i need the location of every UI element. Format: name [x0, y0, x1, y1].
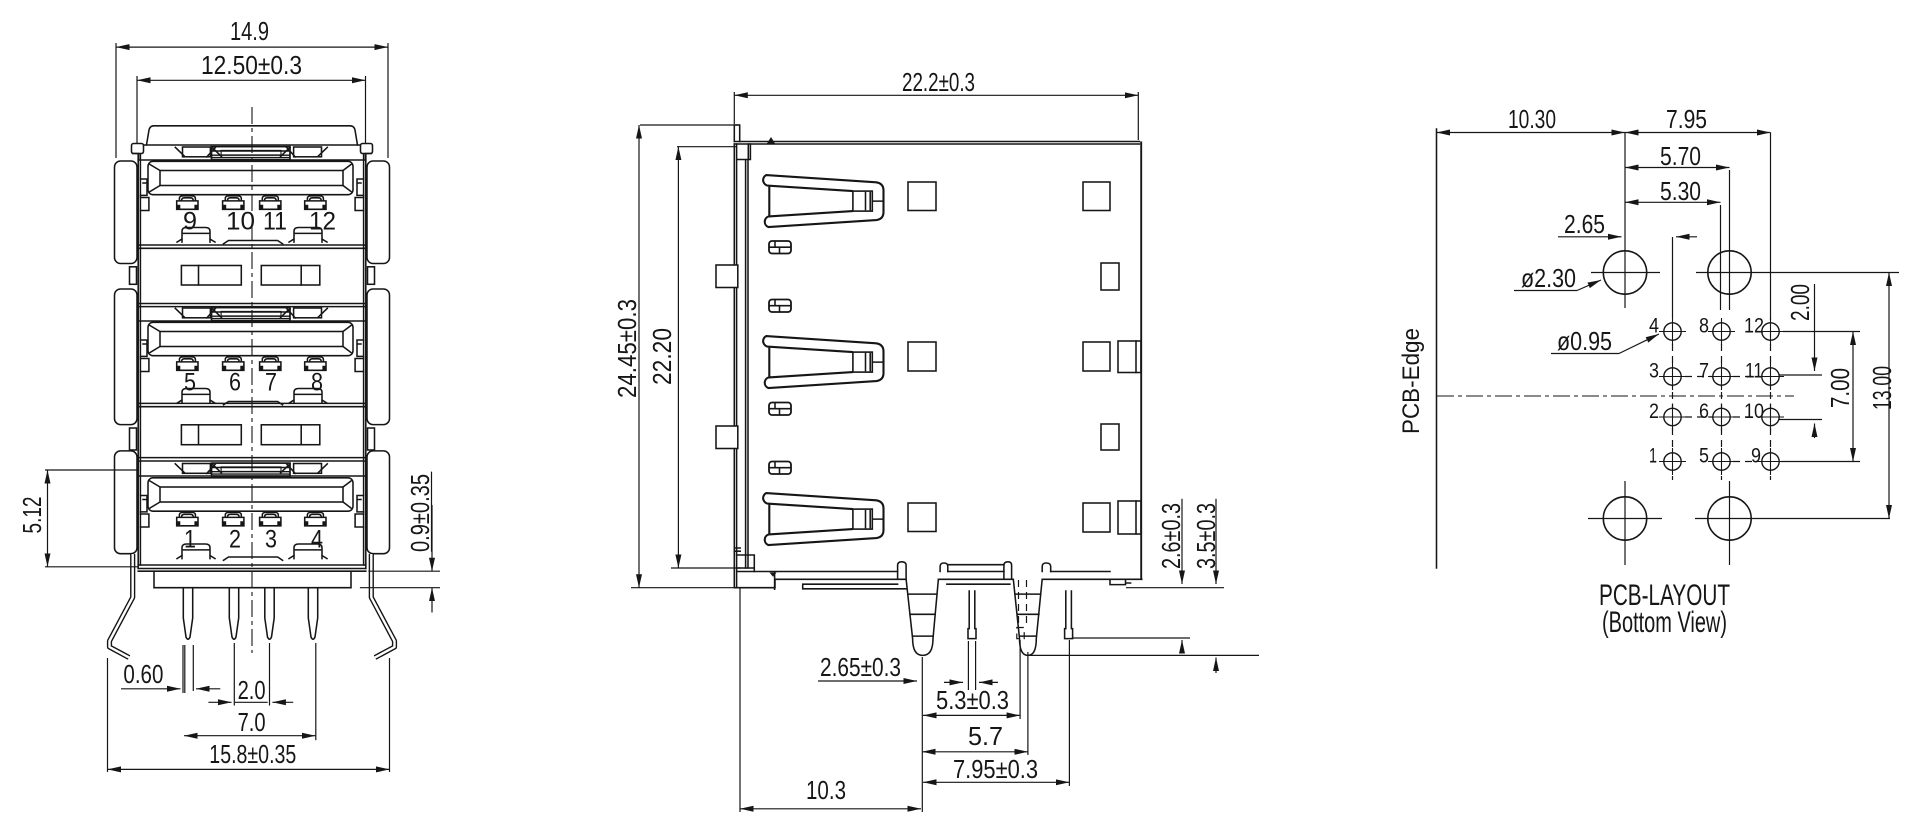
left mounting leg	[110, 554, 133, 658]
thin pin middle	[968, 590, 976, 638]
shell window right top	[1083, 182, 1110, 211]
mount hole top A	[1603, 251, 1646, 294]
svg-text:22.2±0.3: 22.2±0.3	[902, 67, 975, 97]
svg-text:10.3: 10.3	[806, 775, 846, 805]
port C assembly	[140, 463, 363, 560]
shell window right middle	[1083, 342, 1110, 371]
svg-text:2.0: 2.0	[238, 675, 266, 705]
svg-text:8: 8	[1699, 315, 1709, 338]
contact 4	[305, 196, 326, 209]
right wing lower	[367, 451, 390, 554]
svg-text:5.3±0.3: 5.3±0.3	[936, 685, 1009, 715]
pin hole 1	[1659, 448, 1686, 475]
PCB-VIEW	[1398, 104, 1899, 639]
right bottom feet	[1110, 579, 1131, 584]
shell window mid bottom	[908, 503, 936, 532]
side spring tab left a	[140, 179, 147, 195]
svg-text:12: 12	[309, 208, 336, 236]
svg-text:7.95±0.3: 7.95±0.3	[953, 754, 1038, 784]
pin carrier strip	[738, 565, 1110, 590]
svg-text:11: 11	[1745, 360, 1763, 383]
right extension lines	[1029, 588, 1259, 656]
pin column 2 axis	[1720, 205, 1722, 310]
svg-text:9: 9	[183, 208, 197, 236]
svg-text:0.9±0.35: 0.9±0.35	[405, 474, 435, 552]
svg-text:7.00: 7.00	[1825, 368, 1855, 408]
latch spring 2	[763, 336, 883, 388]
pin hole 9	[1757, 448, 1784, 475]
side spring tab right a	[357, 179, 364, 195]
svg-text:ø0.95: ø0.95	[1557, 326, 1612, 356]
mount hole bottom B	[1708, 497, 1751, 540]
svg-text:11: 11	[263, 208, 287, 236]
thin pin right	[1065, 590, 1073, 638]
svg-text:15.8±0.35: 15.8±0.35	[209, 739, 296, 769]
contact 2	[223, 196, 244, 209]
svg-text:10.30: 10.30	[1508, 104, 1556, 134]
wall tab 4	[769, 462, 791, 475]
port B assembly	[140, 308, 363, 405]
svg-text:1: 1	[184, 526, 196, 554]
pin A extension	[921, 657, 923, 812]
top cover	[734, 142, 1139, 145]
svg-text:4: 4	[311, 526, 323, 554]
side spring tab right b	[355, 198, 364, 211]
pin hole 10	[1757, 404, 1784, 431]
right ear tab	[361, 144, 373, 154]
top plastic cap	[147, 126, 358, 145]
svg-text:5: 5	[1699, 445, 1709, 468]
svg-text:24.45±0.3: 24.45±0.3	[612, 299, 642, 398]
strip bump 2	[940, 563, 948, 572]
svg-text:9: 9	[1751, 445, 1761, 468]
strip datum notch	[770, 573, 777, 577]
back edge slot middle	[1118, 341, 1141, 373]
svg-text:2: 2	[1649, 400, 1659, 423]
thin pin width arrows	[944, 681, 963, 683]
pin B hidden lines	[1019, 580, 1027, 626]
shell horizontal section lines	[138, 145, 366, 569]
svg-text:6: 6	[1699, 400, 1709, 423]
svg-text:22.20: 22.20	[647, 328, 677, 385]
wall tab 2	[769, 300, 791, 313]
pin hole 2	[1659, 404, 1686, 431]
back small slot upper	[1101, 263, 1119, 290]
centre bump	[224, 241, 283, 244]
row 1-5-9 dash	[1733, 461, 1757, 463]
centre seam bar	[212, 147, 291, 160]
pcb lock tab upper	[716, 265, 738, 288]
strip bump 3	[1004, 562, 1012, 579]
connector centreline	[1437, 395, 1794, 397]
centerline front view	[251, 107, 253, 653]
svg-text:14.9: 14.9	[230, 16, 269, 46]
front wall bottom notch	[734, 548, 754, 572]
mount hole top B	[1708, 251, 1751, 294]
pin column 1 axis	[1672, 237, 1674, 318]
solder pin 2 front	[229, 589, 238, 640]
tongue bevel lines	[150, 165, 351, 192]
right back wall	[1140, 142, 1142, 580]
back small slot lower	[1101, 424, 1119, 450]
svg-text:5.12: 5.12	[17, 497, 47, 534]
top crimp tabs	[183, 147, 211, 157]
pin column 3 axis	[1770, 133, 1772, 321]
shell outer right wall	[364, 145, 366, 569]
svg-text:10: 10	[1744, 400, 1764, 423]
row 3-7-11 dashes	[1685, 376, 1757, 378]
solder pin 3 front	[265, 589, 274, 640]
latch spring 1	[763, 175, 883, 227]
back edge slot bottom	[1118, 501, 1141, 534]
cover left tab	[734, 125, 739, 142]
svg-text:3: 3	[1649, 360, 1659, 383]
svg-text:7.0: 7.0	[238, 707, 266, 737]
solder pin B side	[1013, 579, 1042, 655]
left wing middle	[115, 289, 138, 425]
pcb lock tab lower	[716, 426, 738, 449]
cover datum mark	[767, 137, 775, 144]
pin hole 7	[1708, 363, 1735, 390]
PCB edge line	[1436, 129, 1438, 568]
tongue inner	[160, 171, 343, 186]
mount hole bottom A	[1603, 497, 1646, 540]
shell window right bottom	[1083, 503, 1110, 532]
svg-text:2: 2	[229, 526, 241, 554]
side spring tab left b	[140, 198, 149, 211]
svg-text:3: 3	[265, 526, 277, 554]
svg-text:10: 10	[226, 208, 255, 236]
shell window mid middle	[908, 342, 936, 371]
vent section 1 rectangles	[181, 266, 241, 286]
contact 1	[177, 196, 198, 209]
left ear tab	[132, 144, 144, 154]
pin hole 11	[1757, 363, 1784, 390]
left wing upper	[115, 161, 138, 264]
port A assembly	[140, 147, 363, 244]
strip bump 1	[898, 562, 907, 579]
latch bump right	[289, 228, 327, 243]
body bottom edge	[735, 579, 1142, 587]
right wing connector pieces	[368, 267, 375, 285]
vent section 2 rectangles	[181, 425, 241, 445]
pin hole 8	[1708, 318, 1735, 345]
svg-text:5: 5	[184, 369, 196, 397]
svg-text:(Bottom View): (Bottom View)	[1602, 606, 1727, 639]
svg-text:1: 1	[1649, 445, 1657, 468]
svg-text:2.00: 2.00	[1785, 284, 1815, 321]
svg-text:13.00: 13.00	[1867, 366, 1897, 410]
solder pin A side	[906, 579, 938, 655]
latch spring 3	[763, 493, 883, 545]
contact 3	[260, 196, 281, 209]
svg-text:5.7: 5.7	[968, 721, 1003, 751]
SIDE-VIEW	[612, 67, 1259, 812]
bottom flange	[138, 571, 366, 588]
left wing lower	[115, 451, 138, 554]
FRONT-VIEW	[17, 16, 440, 772]
svg-text:7: 7	[265, 369, 277, 397]
right mounting leg	[371, 554, 394, 658]
left front wall	[734, 144, 750, 588]
pin hole 12	[1757, 318, 1784, 345]
svg-text:PCB-Edge: PCB-Edge	[1398, 328, 1425, 434]
pin hole 6	[1708, 404, 1735, 431]
pin hole 5	[1708, 448, 1735, 475]
svg-text:5.70: 5.70	[1660, 141, 1701, 171]
svg-text:2.65±0.3: 2.65±0.3	[820, 652, 901, 682]
svg-text:8: 8	[311, 369, 323, 397]
right wing middle	[367, 289, 390, 425]
svg-text:0.60: 0.60	[123, 659, 163, 689]
right wing upper	[367, 161, 390, 264]
solder pin 1 front	[183, 589, 192, 640]
svg-text:2.65: 2.65	[1564, 209, 1605, 239]
shell outer left wall	[138, 145, 140, 569]
wall tab 1	[769, 241, 791, 254]
latch bump left	[177, 228, 215, 243]
strip bump 4	[1042, 563, 1051, 572]
svg-text:7: 7	[1699, 360, 1709, 383]
svg-text:7.95: 7.95	[1666, 104, 1707, 134]
svg-text:12: 12	[1744, 315, 1764, 338]
tongue outer	[148, 161, 353, 194]
svg-text:ø2.30: ø2.30	[1521, 263, 1576, 293]
svg-text:5.30: 5.30	[1660, 176, 1701, 206]
svg-text:6: 6	[229, 369, 241, 397]
row 2-6-10 dashes	[1685, 416, 1757, 418]
pin hole 4	[1659, 318, 1686, 345]
pin hole 3	[1659, 363, 1686, 390]
solder pin 4 front	[308, 589, 317, 640]
left wing connector pieces	[130, 267, 137, 285]
shell window mid top	[908, 182, 936, 211]
svg-text:12.50±0.3: 12.50±0.3	[201, 50, 302, 80]
wall tab 3	[769, 403, 791, 416]
